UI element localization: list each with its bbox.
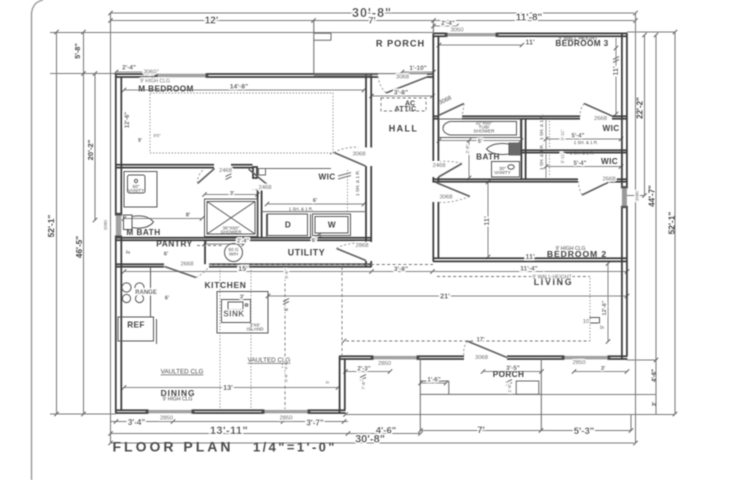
svg-text:3': 3' <box>126 250 132 254</box>
svg-text:W: W <box>328 221 336 230</box>
svg-text:1 SH. & 1 R.: 1 SH. & 1 R. <box>355 170 360 196</box>
svg-text:2'-4": 2'-4" <box>441 20 455 27</box>
svg-text:3': 3' <box>230 191 235 197</box>
svg-text:52'-1": 52'-1" <box>46 215 56 238</box>
svg-text:6': 6' <box>164 252 169 258</box>
svg-text:RANGE: RANGE <box>135 290 157 296</box>
svg-text:6': 6' <box>313 198 318 204</box>
svg-text:PORCH: PORCH <box>493 370 525 379</box>
svg-text:3068: 3068 <box>352 152 366 158</box>
svg-text:11'-8": 11'-8" <box>516 13 543 24</box>
svg-text:5'-8": 5'-8" <box>73 43 82 59</box>
svg-text:5'-4": 5'-4" <box>572 134 585 140</box>
svg-text:14'-8": 14'-8" <box>230 84 248 91</box>
svg-text:12': 12' <box>205 16 219 27</box>
svg-text:VAULTED CLG: VAULTED CLG <box>161 369 204 376</box>
svg-text:3'-8": 3'-8" <box>394 90 408 97</box>
svg-text:3068: 3068 <box>396 75 410 81</box>
svg-text:5'-3": 5'-3" <box>574 426 595 437</box>
svg-text:WIC: WIC <box>601 157 618 166</box>
svg-text:5'-6": 5'-6" <box>284 269 289 279</box>
svg-text:3'-11": 3'-11" <box>560 129 565 140</box>
svg-text:1 SH. & 1 R.: 1 SH. & 1 R. <box>539 114 544 140</box>
svg-text:1 SH. & 1 R.: 1 SH. & 1 R. <box>574 140 598 145</box>
svg-text:11': 11' <box>482 216 491 226</box>
svg-text:9' WALL HEIGHT: 9' WALL HEIGHT <box>558 36 597 42</box>
svg-text:1 SH. & 1 R.: 1 SH. & 1 R. <box>289 207 313 212</box>
svg-text:D: D <box>285 221 291 230</box>
svg-text:52'-1": 52'-1" <box>667 212 677 235</box>
svg-text:2468: 2468 <box>219 168 233 174</box>
svg-text:3': 3' <box>240 295 245 301</box>
svg-text:7': 7' <box>368 16 376 27</box>
svg-text:1/4"=1'-0": 1/4"=1'-0" <box>253 440 337 455</box>
svg-text:7': 7' <box>477 425 485 436</box>
svg-text:VANITY: VANITY <box>128 188 145 193</box>
svg-text:3050: 3050 <box>450 28 464 34</box>
svg-text:17': 17' <box>476 338 485 344</box>
svg-text:46'-5": 46'-5" <box>75 236 84 258</box>
svg-text:KITCHEN: KITCHEN <box>204 280 246 290</box>
svg-text:3068: 3068 <box>475 355 489 361</box>
svg-text:15': 15' <box>238 264 248 273</box>
svg-text:6': 6' <box>284 307 290 311</box>
svg-text:1'-6": 1'-6" <box>507 383 512 393</box>
svg-text:LIVING: LIVING <box>534 277 574 287</box>
svg-text:SHOWER: SHOWER <box>220 230 242 235</box>
svg-text:2850: 2850 <box>279 416 293 422</box>
svg-text:2'-4": 2'-4" <box>237 239 249 245</box>
svg-text:BATH: BATH <box>476 153 500 162</box>
svg-text:13': 13' <box>223 383 233 392</box>
svg-text:9' HIGH CLG: 9' HIGH CLG <box>163 397 193 403</box>
svg-text:2'-3": 2'-3" <box>357 366 370 373</box>
svg-text:M BATH: M BATH <box>126 228 160 237</box>
svg-text:WIC: WIC <box>602 124 619 133</box>
svg-text:5': 5' <box>478 139 483 145</box>
svg-text:7'-6": 7'-6" <box>361 380 366 390</box>
svg-text:SHOWER: SHOWER <box>473 129 495 134</box>
svg-text:PANTRY: PANTRY <box>156 239 193 249</box>
svg-text:21': 21' <box>440 292 450 301</box>
svg-text:2850: 2850 <box>572 360 586 366</box>
svg-text:11': 11' <box>525 252 535 261</box>
svg-text:2668: 2668 <box>180 262 194 268</box>
svg-text:2668: 2668 <box>602 177 616 183</box>
svg-text:HALL: HALL <box>389 124 419 134</box>
svg-text:2468: 2468 <box>258 185 272 191</box>
svg-text:11'-4": 11'-4" <box>520 266 538 273</box>
svg-text:9'6": 9'6" <box>153 133 161 138</box>
svg-text:REF: REF <box>127 321 145 330</box>
svg-text:2850: 2850 <box>378 361 392 367</box>
svg-text:2'-8": 2'-8" <box>465 144 470 154</box>
svg-text:2468: 2468 <box>432 163 446 169</box>
svg-text:11': 11' <box>611 66 620 76</box>
svg-text:3'-7": 3'-7" <box>306 419 323 428</box>
svg-text:M BEDROOM: M BEDROOM <box>138 85 193 94</box>
svg-text:1 SH. & 1 R.: 1 SH. & 1 R. <box>539 144 544 170</box>
svg-text:SINK: SINK <box>223 310 244 319</box>
svg-text:3'-4": 3'-4" <box>128 418 145 427</box>
svg-text:9': 9' <box>138 138 142 144</box>
svg-text:13'-11": 13'-11" <box>210 425 248 437</box>
svg-text:1 SH. & 1 R.: 1 SH. & 1 R. <box>570 151 594 156</box>
svg-text:20'-2": 20'-2" <box>86 139 95 160</box>
svg-text:R PORCH: R PORCH <box>376 39 425 49</box>
svg-text:4'-6": 4'-6" <box>652 369 658 382</box>
svg-text:6': 6' <box>312 238 317 244</box>
svg-text:3'-11": 3'-11" <box>560 152 565 163</box>
svg-text:3080: 3080 <box>103 219 108 230</box>
svg-text:3080: 3080 <box>635 190 640 201</box>
svg-text:BEDROOM 2: BEDROOM 2 <box>547 249 607 259</box>
svg-text:30'-8": 30'-8" <box>355 434 385 446</box>
svg-text:3'-8": 3'-8" <box>394 266 408 273</box>
svg-text:W/H: W/H <box>229 252 238 257</box>
svg-text:11': 11' <box>525 38 535 47</box>
svg-text:FLOOR PLAN: FLOOR PLAN <box>113 439 234 455</box>
svg-text:ISLAND: ISLAND <box>247 327 265 332</box>
svg-text:VANITY: VANITY <box>494 170 511 175</box>
svg-text:9': 9' <box>600 325 606 329</box>
svg-text:12'-6": 12'-6" <box>602 300 608 315</box>
svg-text:2850: 2850 <box>160 416 174 422</box>
svg-text:WIC: WIC <box>318 173 335 182</box>
svg-text:44'-7": 44'-7" <box>648 185 657 207</box>
svg-text:5'-4": 5'-4" <box>574 161 587 167</box>
svg-text:VAULTED CLG: VAULTED CLG <box>248 357 291 364</box>
svg-text:22'-2": 22'-2" <box>636 97 645 119</box>
svg-text:5': 5' <box>325 380 330 384</box>
svg-text:8': 8' <box>186 213 191 219</box>
svg-text:ATTIC: ATTIC <box>394 106 416 113</box>
svg-text:3068: 3068 <box>439 195 453 201</box>
svg-text:3': 3' <box>601 366 606 372</box>
svg-text:2868: 2868 <box>355 243 369 249</box>
svg-text:1'-6": 1'-6" <box>427 377 440 384</box>
svg-text:2668: 2668 <box>594 116 608 122</box>
svg-text:5'-6": 5'-6" <box>284 373 289 383</box>
svg-text:3060: 3060 <box>143 70 157 76</box>
svg-text:10: 10 <box>583 319 590 325</box>
svg-text:3': 3' <box>652 401 658 406</box>
svg-text:6': 6' <box>165 296 170 302</box>
svg-text:UTILITY: UTILITY <box>288 248 325 258</box>
svg-text:1'-10": 1'-10" <box>409 65 426 72</box>
svg-text:2'-4": 2'-4" <box>122 65 136 72</box>
svg-text:12'-6": 12'-6" <box>125 112 131 128</box>
